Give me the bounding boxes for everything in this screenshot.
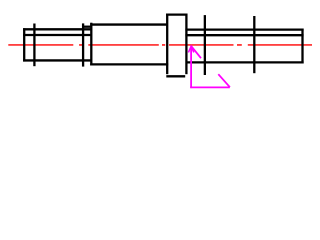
wire section1 top H1 bbox=[23, 28, 91, 30]
wire flange bottom bbox=[166, 75, 185, 77]
wire flange left vertical bbox=[166, 14, 168, 75]
wire left end cap V1 bbox=[23, 28, 25, 61]
wire right end cap bbox=[301, 29, 303, 64]
wire section1 inner line H1b bbox=[23, 34, 91, 36]
wire magenta diagonal 1 bbox=[191, 46, 201, 58]
wire tall vertical V5 bbox=[204, 15, 206, 75]
wire tall vertical V6 bbox=[253, 16, 255, 73]
wire middle section top bbox=[90, 23, 168, 25]
node centerline (red dash-dot) bbox=[8, 44, 312, 46]
wire magenta leader vertical bbox=[190, 48, 192, 89]
wire magenta arrowhead bbox=[188, 46, 193, 52]
wire step connector bbox=[82, 26, 91, 28]
wire shoulder Vx bbox=[82, 23, 84, 66]
wire right section top bbox=[185, 28, 303, 30]
wire magenta leader horizontal bbox=[190, 86, 230, 88]
wire shoulder V2 bbox=[33, 24, 35, 67]
wire section1 bottom H2 bbox=[23, 59, 91, 61]
wire right section bottom bbox=[186, 61, 303, 63]
wire middle section left vertical Vm bbox=[90, 23, 92, 66]
wire flange top bbox=[166, 13, 187, 15]
wire middle section bottom bbox=[90, 63, 168, 65]
wire magenta diagonal 2 bbox=[218, 74, 230, 87]
wire flange right vertical bbox=[185, 14, 187, 75]
wire right section inner line bbox=[185, 34, 303, 36]
